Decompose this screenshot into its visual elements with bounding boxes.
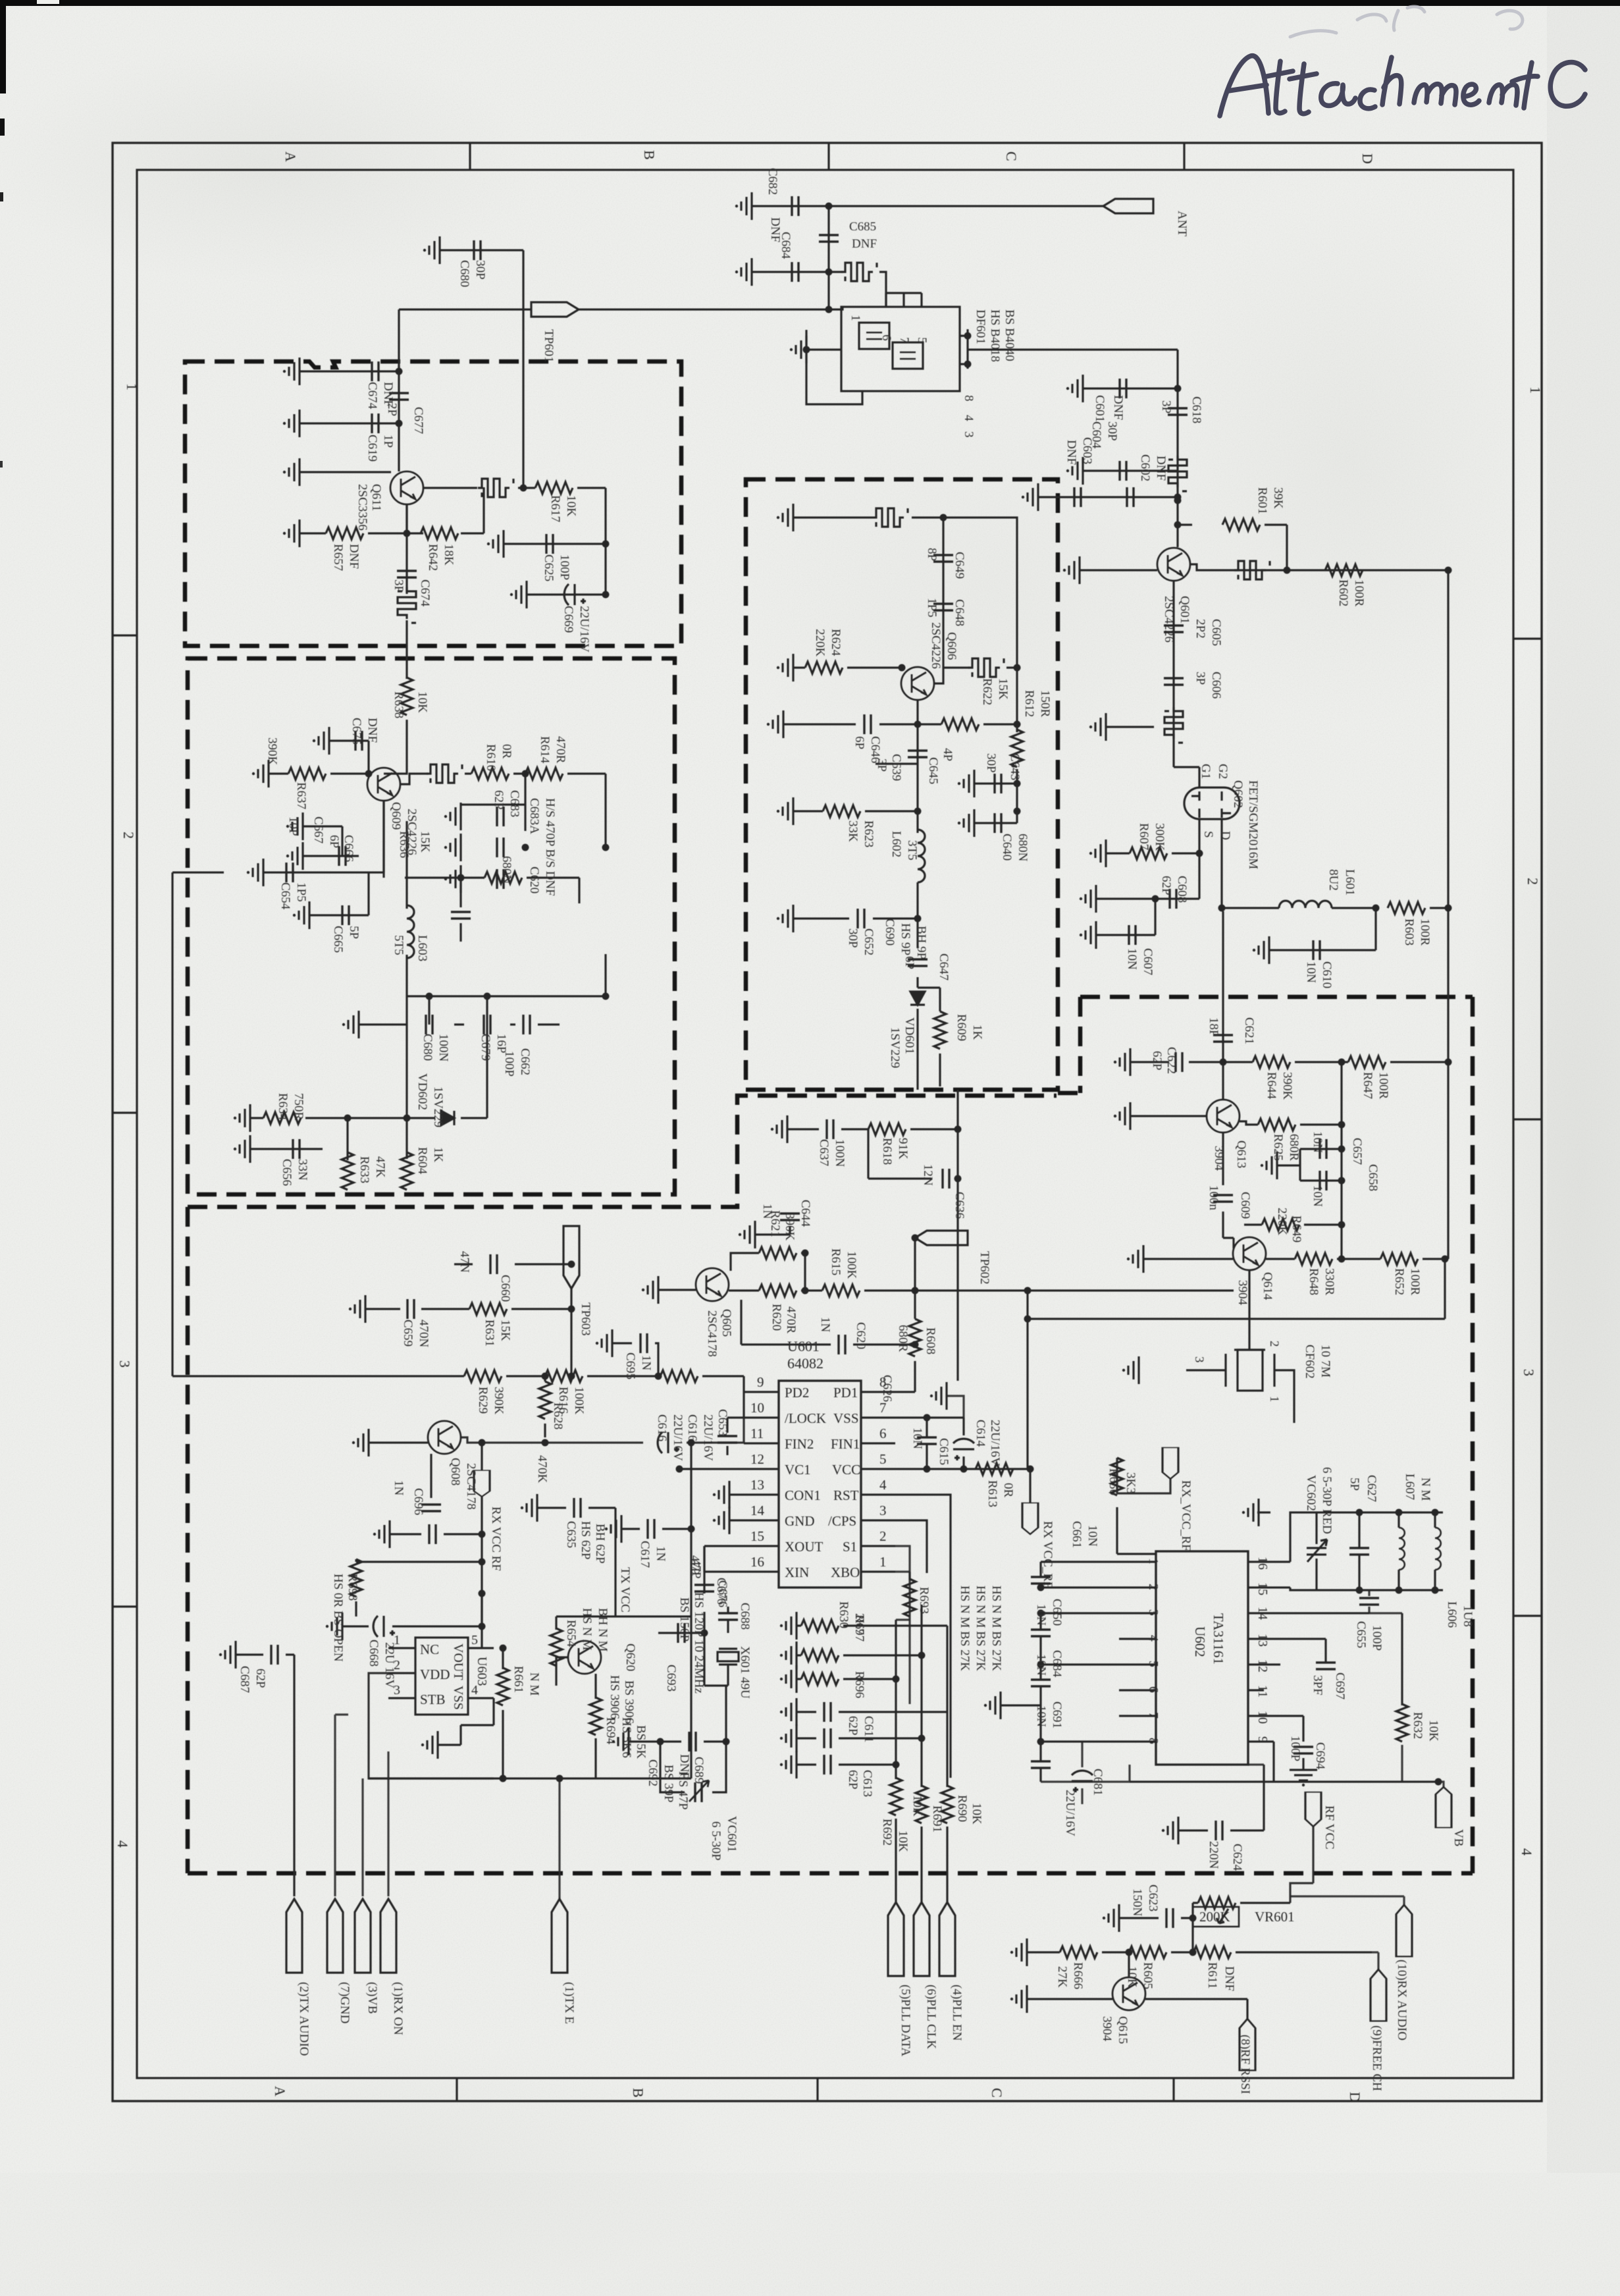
svg-text:6: 6 [879,1426,887,1441]
zone tick marks right [1513,639,1542,1616]
svg-text:HS 120P 10 24MHz: HS 120P 10 24MHz [692,1592,706,1694]
svg-text:11: 11 [1255,1685,1270,1697]
svg-text:1: 1 [124,383,140,390]
svg-text:Q620: Q620 [623,1643,637,1671]
svg-text:100R: 100R [1408,1268,1422,1296]
svg-text:R652: R652 [1392,1268,1406,1295]
svg-text:D: D [1218,831,1232,840]
pin (1)TX E [552,1899,567,1973]
svg-text:RF VCC: RF VCC [1322,1805,1336,1850]
C689 DNF cap + gnd [629,1686,726,1742]
svg-text:C665: C665 [331,926,345,953]
svg-text:R666: R666 [1071,1962,1085,1989]
C655 100P wire pin14 [1368,1590,1370,1613]
DF601 ceramic filter block [841,307,960,391]
svg-text:HS 62P: HS 62P [579,1521,592,1560]
pin (4)PLL EN [939,1902,955,1976]
caps C608 C607 [1096,899,1199,935]
ground [735,258,752,286]
svg-text:R602: R602 [1336,579,1350,606]
svg-text:VC601: VC601 [725,1816,739,1852]
inductor L606 1U8 vertical [1434,1512,1436,1528]
svg-text:1N: 1N [392,1480,405,1496]
base chain down: C674 3P + filter [405,504,407,679]
svg-text:22U/16V: 22U/16V [671,1414,685,1461]
capacitor C682 [792,196,798,216]
svg-text:C610: C610 [1320,961,1334,988]
svg-text:C608: C608 [1175,876,1189,903]
svg-text:15K: 15K [418,831,432,853]
pin (1)RX ON [380,1899,396,1973]
main row y2094 [172,1376,744,1418]
svg-text:C674: C674 [418,579,432,607]
svg-text:0R: 0R [1001,1483,1015,1498]
resistor R618 91K [868,1123,906,1135]
wire top row to right [943,518,1017,668]
svg-text:C609: C609 [1238,1192,1252,1219]
svg-text:ANT: ANT [1175,211,1189,236]
svg-text:(4)PLL EN: (4)PLL EN [950,1985,964,2041]
R604 1K vertical [401,1152,413,1190]
svg-text:2: 2 [1525,878,1541,885]
zone letters [115,150,1544,2102]
svg-text:D: D [1359,153,1376,164]
svg-text:STB: STB [420,1692,446,1707]
svg-text:(7)GND: (7)GND [338,1982,352,2023]
transistor Q615 [1112,1977,1145,2010]
svg-text:2: 2 [120,832,137,839]
svg-text:7: 7 [1146,1712,1161,1719]
svg-text:C649: C649 [953,552,966,579]
drain wire to L601 [1222,819,1279,908]
svg-text:N M: N M [1419,1478,1432,1501]
capacitor C627 5P [1349,1548,1369,1555]
svg-text:C666: C666 [342,835,355,862]
svg-text:R661: R661 [511,1666,525,1693]
resistor R605 10K [1129,1946,1166,1958]
row y2965: R666 R605 R611 [1027,1951,1372,1953]
C639 3P / C645 4P caps [875,724,918,833]
svg-text:S: S [1201,831,1215,838]
vertical chain [1176,388,1178,547]
wire long bus y2003 [1028,1318,1445,1320]
svg-text:C684: C684 [1050,1650,1064,1678]
wire ANT line [829,205,1103,207]
svg-text:U603: U603 [475,1657,489,1686]
svg-text:R692: R692 [880,1819,894,1846]
svg-text:RST: RST [833,1487,859,1503]
resistor R638 10K vertical [405,678,407,764]
svg-text:18K: 18K [442,544,456,566]
svg-text:C623: C623 [1146,1884,1160,1911]
svg-text:X601 49U: X601 49U [738,1646,752,1699]
svg-text:1: 1 [1527,387,1544,394]
svg-text:R696: R696 [852,1671,866,1698]
wire S1 pin2 down [895,1546,910,1704]
svg-text:8U2: 8U2 [1326,869,1340,891]
svg-text:4: 4 [879,1477,887,1493]
svg-text:C681: C681 [1091,1769,1105,1796]
svg-text:CF602: CF602 [1303,1345,1317,1379]
svg-text:R624: R624 [829,629,843,656]
bottom rows: C680 100N / C679 16P / C662 100P [407,954,606,1025]
svg-text:680R: 680R [1287,1134,1301,1161]
svg-text:RX VCC RF: RX VCC RF [489,1507,503,1571]
svg-text:C682: C682 [766,168,779,195]
svg-text:(10)RX AUDIO: (10)RX AUDIO [1395,1960,1409,2041]
svg-text:C668: C668 [367,1640,380,1667]
pin (3)VB [355,1899,371,1973]
svg-text:Q615: Q615 [1116,2016,1130,2044]
R650 3K3 vertical + pin [1117,1507,1156,1554]
svg-text:1N: 1N [639,1355,653,1371]
svg-text:R630: R630 [837,1601,850,1628]
svg-text:C637: C637 [817,1139,831,1166]
svg-text:22U/16V: 22U/16V [701,1414,715,1461]
svg-text:100N: 100N [833,1139,847,1167]
svg-text:C647: C647 [937,953,951,980]
svg-text:C613: C613 [860,1770,874,1797]
capacitor C601 [1120,379,1126,398]
svg-text:390K: 390K [492,1387,506,1415]
svg-text:R613: R613 [985,1480,999,1507]
resistor R690 10K [941,1786,953,1823]
svg-text:R601: R601 [1255,487,1269,514]
svg-text:C693: C693 [664,1665,678,1692]
svg-text:C615: C615 [937,1438,951,1465]
svg-text:C683A: C683A [527,798,541,834]
svg-text:C688: C688 [738,1603,752,1630]
cap C610 to ground [1269,908,1376,950]
svg-text:5T5: 5T5 [392,935,405,955]
wire down bus [1447,570,1449,908]
labels center [685,1138,1055,1635]
capacitor C669 22U/16V electrolytic [564,584,586,605]
svg-text:HS 3906: HS 3906 [608,1675,621,1719]
outer frame [113,143,1542,2101]
svg-text:R644: R644 [1265,1072,1278,1100]
resistor R657 DNF [326,527,363,539]
CF602 ceramic filter [1234,1270,1265,1350]
svg-text:C652: C652 [862,928,875,955]
svg-text:XOUT: XOUT [785,1539,823,1555]
svg-text:R618: R618 [880,1138,894,1165]
R632 10K vertical [1401,1613,1403,1705]
gnd cap row at 2330 [390,1533,482,1535]
svg-text:3PF: 3PF [1311,1675,1324,1695]
svg-text:BS B4040: BS B4040 [1003,309,1016,361]
resistor R611 DNF [1193,1946,1231,1958]
labels [331,260,591,653]
svg-text:22U/16V: 22U/16V [1063,1790,1077,1836]
zone tick marks top [470,143,1184,170]
zone tick marks left [113,635,137,1607]
svg-text:R622: R622 [980,678,994,705]
emitter row C646 6P [783,700,918,724]
inductor L601 [1279,901,1332,908]
R634 750R + C656 33N + R633 47K [250,1118,348,1149]
svg-text:R615: R615 [829,1248,843,1275]
resistor R602 [1325,564,1363,576]
capacitor C675 DNF [349,741,407,774]
svg-text:R625: R625 [1271,1134,1285,1161]
svg-text:Q606: Q606 [945,632,958,660]
svg-text:(1)RX ON: (1)RX ON [391,1982,405,2035]
ground wire [1106,726,1154,728]
resistor R608 680R vertical [909,1319,921,1356]
svg-text:100R: 100R [1352,579,1366,607]
svg-text:R697: R697 [852,1615,866,1642]
svg-text:VSS: VSS [451,1686,465,1710]
svg-text:C: C [989,2088,1005,2098]
labels B4 [1150,1017,1422,1402]
svg-text:C626: C626 [880,1375,894,1402]
svg-text:DNF: DNF [1064,440,1078,465]
svg-text:R611: R611 [1205,1962,1219,1989]
VSS pin7 wire [895,1416,964,1418]
svg-text:BS 39P: BS 39P [662,1765,675,1803]
resistor R633 47K vertical [346,1149,348,1160]
resistor R629 390K [464,1370,502,1382]
svg-text:C657: C657 [1350,1138,1364,1165]
row y1613: gnd C622 R644 R647 [1130,1061,1448,1063]
R693 vertical below XBO [908,1572,910,1580]
C616 22U/16V electrolytic [658,1432,679,1453]
svg-text:10N: 10N [1311,1185,1324,1207]
svg-text:C659: C659 [401,1320,415,1347]
dashed box B4 [1080,997,1473,1873]
capacitor C635 row [537,1508,615,1587]
svg-text:220K: 220K [1275,1208,1289,1236]
tank circuit: buses [1290,1512,1443,1590]
FET Q602 pill [1184,788,1240,819]
capacitor C685 [819,235,839,242]
svg-text:C696: C696 [411,1488,425,1515]
svg-text:R636: R636 [397,831,411,858]
svg-text:XIN: XIN [785,1564,809,1580]
wire /CPS pin3 [895,1520,927,1573]
svg-text:15: 15 [1255,1582,1270,1595]
svg-text:C620: C620 [527,867,541,894]
R628 470R vertical [539,1381,551,1419]
svg-text:C661: C661 [1070,1521,1084,1548]
labels [1064,395,1366,699]
wire DF601 to right [968,350,1178,388]
trimmer VC602 [1307,1539,1327,1562]
resistor R610 0R [471,768,509,780]
svg-text:100R: 100R [1418,919,1432,946]
svg-text:10N: 10N [1034,1705,1048,1727]
svg-text:33K: 33K [846,820,860,842]
C687 62P + gnd far left [236,1655,294,1896]
C614 22U/16V electrolytic [953,1439,974,1460]
svg-text:CON1: CON1 [785,1487,821,1503]
wire PD1 pin8 [895,1391,915,1393]
resistor R666 27K [1060,1946,1097,1958]
svg-text:47N: 47N [457,1251,471,1273]
svg-text:D: D [1347,2092,1363,2102]
svg-text:1N: 1N [654,1546,667,1562]
source resistor R607 [1106,852,1199,854]
C621 18P vertical from top [1222,911,1224,1062]
capacitor C674 DNF [372,361,379,381]
emitter chain C609 100n [1222,1133,1224,1238]
pin (2)TX AUDIO [286,1899,302,1973]
svg-text:HS N M BS 27K: HS N M BS 27K [958,1586,972,1671]
node [825,306,833,313]
labels [1055,1884,1409,2094]
wire row C601 [1083,387,1178,389]
inner frame [137,170,1513,2078]
R625 680R to bus [1240,1062,1342,1225]
svg-text:XBO: XBO [831,1564,860,1580]
svg-text:3K3: 3K3 [1124,1472,1137,1494]
svg-text:Q601: Q601 [1178,596,1191,624]
svg-text:R698: R698 [346,1574,359,1601]
labels B2 [265,691,567,1186]
labels [1034,1467,1475,1871]
svg-text:C627: C627 [1365,1475,1378,1502]
svg-text:C605: C605 [1209,619,1223,646]
svg-text:14: 14 [1255,1607,1270,1620]
svg-text:R607: R607 [1137,823,1151,850]
node [1014,664,1021,672]
svg-text:1P5: 1P5 [925,598,939,618]
collector row filter + R610 + R614 [400,774,606,847]
svg-text:R621: R621 [768,1210,782,1237]
svg-text:L601: L601 [1343,869,1357,895]
labels [297,1982,964,2056]
wires to bottom connectors [335,1715,348,1896]
svg-text:H/S 470P B/S DNF: H/S 470P B/S DNF [543,798,557,896]
svg-text:100R: 100R [1376,1072,1390,1100]
svg-text:C676: C676 [714,1578,728,1605]
svg-text:150N: 150N [1130,1888,1144,1917]
capacitor C662 100P [523,1015,530,1034]
svg-text:9: 9 [1255,1736,1270,1743]
svg-text:3904: 3904 [1212,1146,1226,1171]
svg-text:10K: 10K [415,691,429,713]
svg-text:3: 3 [962,431,976,438]
ground top-right C660 30P [440,250,523,488]
svg-text:C692: C692 [646,1759,660,1786]
wire C604 row [1083,471,1159,471]
bottom rail y2701 [369,1616,691,1778]
svg-text:PD2: PD2 [785,1385,809,1401]
transistor Q614 [1233,1237,1266,1270]
svg-text:10K: 10K [970,1803,983,1825]
svg-text:62P: 62P [1150,1051,1164,1071]
L603 5T5 inductor vertical [405,821,407,996]
resistor R621 390K [731,1253,805,1271]
top row gnd + filter [793,516,943,518]
svg-text:R632: R632 [1411,1712,1424,1739]
svg-text:2: 2 [879,1528,887,1544]
svg-text:VR601: VR601 [1255,1909,1295,1925]
svg-text:62P: 62P [1159,876,1173,895]
base row: R637 390K + gnd [269,772,369,774]
svg-text:100K: 100K [572,1387,586,1415]
pin (8)RF RSSI down [1240,2019,1255,2070]
svg-text:6P: 6P [327,835,341,848]
svg-text:1SV229: 1SV229 [888,1027,902,1068]
svg-text:R620: R620 [770,1304,783,1331]
svg-text:1N: 1N [818,1317,832,1333]
resistor R637 390K [288,768,326,780]
pin (9)FREE CH [1371,1969,1386,2021]
svg-text:C636: C636 [953,1192,966,1219]
resistor R642 18K [421,527,458,539]
svg-text:2: 2 [1146,1584,1161,1590]
collector row: filter + R617 [423,488,606,595]
svg-text:Q609: Q609 [389,802,403,830]
svg-text:FIN2: FIN2 [785,1436,814,1452]
svg-text:C616: C616 [655,1414,669,1441]
svg-text:3: 3 [1521,1369,1537,1376]
svg-text:U602: U602 [1192,1626,1208,1657]
svg-text:100P: 100P [558,554,571,580]
svg-text:R657: R657 [331,544,345,571]
svg-text:7: 7 [879,1400,887,1416]
svg-text:C614: C614 [974,1420,987,1447]
filter symbol [841,263,877,281]
svg-text:R649: R649 [1290,1215,1303,1242]
right bus [1445,1062,1448,1319]
svg-text:2SC4178: 2SC4178 [464,1463,478,1510]
svg-text:C604: C604 [1089,421,1103,449]
svg-text:22U/16V: 22U/16V [988,1420,1002,1466]
filter vertical [398,587,416,623]
svg-text:3904: 3904 [1100,2016,1114,2042]
svg-text:2SC4178: 2SC4178 [705,1310,719,1357]
svg-text:R614: R614 [538,736,552,764]
svg-text:C684: C684 [779,232,793,259]
svg-text:R693: R693 [917,1587,931,1614]
svg-text:10K: 10K [896,1830,910,1852]
svg-text:8: 8 [962,395,976,402]
wire C682 row [752,205,825,207]
svg-text:C624: C624 [1230,1844,1244,1871]
C681 22U/16V electrolytic [1072,1771,1093,1792]
svg-text:1U8: 1U8 [1461,1605,1475,1627]
svg-text:C662: C662 [518,1048,532,1075]
wire pot to RF VCC riser [1290,1827,1313,1903]
transistor Q606 [901,667,934,700]
resistor R624 220K [805,662,843,674]
labels ladder [846,1586,1003,1852]
collector row: filter + junction [934,668,1017,724]
wire row3 TP601 [579,272,829,309]
capacitor C622 62P [1176,1052,1182,1072]
dashed box B2 [188,658,675,1194]
svg-text:R631: R631 [483,1320,496,1347]
svg-text:C654: C654 [278,882,292,910]
svg-text:8: 8 [1146,1738,1161,1744]
svg-text:64082: 64082 [787,1355,823,1372]
resistor R615 100K [805,1289,1234,1291]
wire XBO pin1 [895,1570,910,1572]
emitter down chain of Q601 [1174,581,1199,788]
svg-text:U601: U601 [787,1338,820,1354]
gnd cap rows C611 C613 [797,1712,947,1765]
svg-text:C639: C639 [889,754,903,781]
svg-text:C658: C658 [1366,1164,1380,1191]
svg-text:12: 12 [1255,1659,1270,1672]
svg-text:0R: 0R [500,744,513,759]
svg-text:C648: C648 [953,599,966,626]
svg-text:R647: R647 [1361,1072,1374,1099]
svg-text:15: 15 [750,1528,764,1544]
